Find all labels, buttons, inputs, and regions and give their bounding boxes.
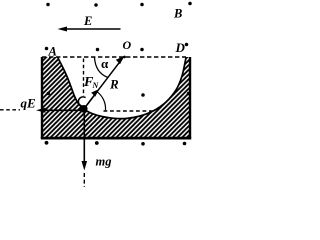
radius R arrow from ball to O <box>84 58 122 108</box>
field dot row4 <box>45 141 49 145</box>
ball point <box>80 105 88 113</box>
qE force arrow (ball to left) <box>42 109 84 111</box>
groove arc outline <box>58 57 187 119</box>
svg-text:A: A <box>48 45 57 59</box>
point O <box>123 56 126 59</box>
E field arrow <box>63 28 121 30</box>
svg-text:α: α <box>101 56 109 71</box>
right dashed horizontal line through ball <box>104 110 153 112</box>
dashed line A-O-D (block top edge) <box>42 56 186 58</box>
vertical dashed line from O level down to ball <box>83 59 85 97</box>
normal force FN arrow (ball toward O) <box>84 92 97 108</box>
angle arc at ball between R and horizontal <box>97 92 105 111</box>
svg-text:mg: mg <box>96 155 112 169</box>
dashed continuation below mg <box>83 173 85 187</box>
svg-text:B: B <box>173 7 182 21</box>
svg-text:O: O <box>123 38 132 52</box>
alpha angle arc at O <box>95 58 108 78</box>
mg weight arrow <box>83 110 85 164</box>
groove cavity (white cut) <box>58 56 187 119</box>
svg-text:D: D <box>175 40 186 55</box>
block right edge <box>189 57 191 139</box>
svg-text:E: E <box>83 14 92 28</box>
field dot row1 <box>46 3 50 7</box>
ball (small open circle at contact point) <box>78 97 85 106</box>
field dot row2 <box>45 47 49 51</box>
field dot row3 <box>47 92 51 96</box>
hatched block <box>42 57 191 139</box>
block bottom edge <box>41 137 191 140</box>
block left edge <box>41 57 43 139</box>
svg-text:qE: qE <box>21 96 37 111</box>
svg-text:R: R <box>109 77 119 92</box>
left dashed extension of qE line <box>0 109 20 111</box>
